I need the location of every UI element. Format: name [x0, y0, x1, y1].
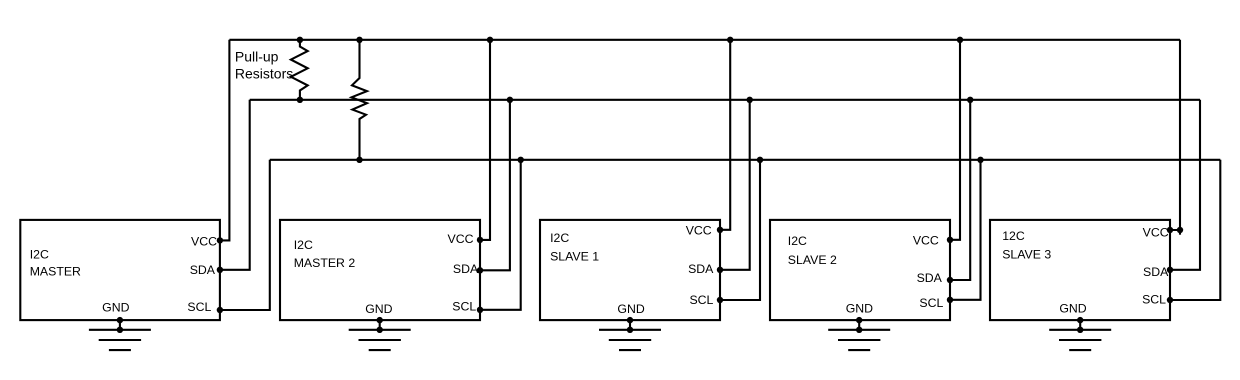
junction R2 bottom on SCL rail	[356, 157, 362, 163]
wire U4 VCC pin to VCC rail	[950, 40, 960, 240]
pin U3 VCC	[717, 227, 723, 233]
svg-text:SCL: SCL	[187, 300, 211, 314]
svg-text:SDA: SDA	[688, 262, 714, 276]
pin U5 SDA	[1167, 267, 1173, 273]
svg-text:SCL: SCL	[1142, 292, 1166, 306]
pin U4 SCL	[947, 297, 953, 303]
pin U4 SDA	[947, 277, 953, 283]
svg-text:GND: GND	[102, 301, 129, 315]
junction U3 SCL on SCL rail	[757, 157, 763, 163]
svg-text:SDA: SDA	[917, 271, 943, 285]
junction U5 ground bar	[1077, 327, 1083, 333]
resistor R1 pull-up	[291, 40, 308, 100]
svg-text:SLAVE 2: SLAVE 2	[788, 253, 837, 267]
svg-text:VCC: VCC	[913, 234, 939, 248]
svg-text:GND: GND	[1059, 302, 1086, 316]
svg-text:GND: GND	[365, 302, 392, 316]
pin U1 SCL	[217, 307, 223, 313]
svg-text:VCC: VCC	[1143, 226, 1169, 240]
pin U2 SDA	[477, 267, 483, 273]
pin U1 SDA	[217, 267, 223, 273]
junction U2 SCL on SCL rail	[518, 157, 524, 163]
svg-text:SDA: SDA	[453, 262, 479, 276]
wire U5 SCL pin to SCL rail right end	[1170, 160, 1220, 300]
svg-text:SDA: SDA	[1143, 265, 1169, 279]
junction U2 ground bar	[377, 327, 383, 333]
pin U5 VCC	[1167, 227, 1173, 233]
wire U1 SCL pin to SCL rail	[220, 160, 270, 310]
junction U4 SDA on SDA rail	[967, 97, 973, 103]
wire U2 SCL pin to SCL rail	[480, 160, 521, 310]
svg-text:VCC: VCC	[191, 235, 217, 249]
junction R2 top on VCC rail	[356, 37, 362, 43]
wire U4 SCL pin to SCL rail	[950, 160, 981, 300]
ground U5	[1049, 320, 1111, 350]
svg-text:I2C: I2C	[550, 231, 569, 245]
svg-text:12C: 12C	[1002, 229, 1025, 243]
svg-text:SDA: SDA	[190, 263, 216, 277]
wire U1 SDA pin to SDA rail	[220, 100, 250, 270]
junction U2 ground top	[377, 317, 383, 323]
svg-text:SLAVE 3: SLAVE 3	[1002, 247, 1051, 261]
svg-text:SLAVE 1: SLAVE 1	[550, 250, 599, 264]
ground U4	[828, 320, 890, 350]
svg-text:SCL: SCL	[452, 299, 476, 313]
wire SDA rail (net SDA)	[250, 99, 1200, 101]
wire U5 VCC pin to VCC rail right end	[1170, 40, 1180, 230]
svg-text:Resistors: Resistors	[235, 66, 293, 82]
pin U2 VCC	[477, 237, 483, 243]
junction U3 VCC on VCC rail	[727, 37, 733, 43]
wire U3 SCL pin to SCL rail	[720, 160, 760, 300]
junction U2 VCC on VCC rail	[487, 37, 493, 43]
junction U3 SDA on SDA rail	[747, 97, 753, 103]
ground U2	[349, 320, 411, 350]
ground U3	[599, 320, 661, 350]
pin U5 SCL	[1167, 297, 1173, 303]
pin U4 VCC	[947, 237, 953, 243]
junction U1 ground bar	[117, 327, 123, 333]
I2C slave 3 U5 box	[990, 220, 1170, 320]
junction U2 SDA on SDA rail	[507, 97, 513, 103]
wire stub below U5 VCC corner junction	[1179, 230, 1181, 235]
I2C master 2 U2 box	[280, 220, 480, 320]
ground U1	[89, 320, 151, 350]
pin U3 SDA	[717, 267, 723, 273]
wire U2 SDA pin to SDA rail	[480, 100, 510, 270]
svg-text:MASTER 2: MASTER 2	[294, 256, 356, 270]
svg-text:VCC: VCC	[448, 232, 474, 246]
wire U3 VCC pin to VCC rail	[720, 40, 730, 230]
svg-text:I2C: I2C	[294, 238, 313, 252]
svg-text:VCC: VCC	[686, 224, 712, 238]
junction U3 ground top	[627, 317, 633, 323]
wire U3 SDA pin to SDA rail	[720, 100, 750, 270]
wire U1 VCC pin to VCC rail	[220, 40, 230, 241]
svg-text:MASTER: MASTER	[30, 264, 81, 278]
svg-text:Pull-up: Pull-up	[235, 49, 279, 65]
svg-text:GND: GND	[846, 302, 873, 316]
junction U4 SCL on SCL rail	[977, 157, 983, 163]
pin U2 SCL	[477, 307, 483, 313]
wire U4 SDA pin to SDA rail	[950, 100, 970, 280]
wire SCL rail (net SCL)	[270, 159, 1221, 161]
svg-text:GND: GND	[617, 302, 644, 316]
I2C master U1 box	[20, 220, 220, 320]
wire U5 SDA pin to SDA rail right end	[1170, 100, 1200, 270]
resistor R2 pull-up	[352, 40, 368, 160]
junction U3 ground bar	[627, 327, 633, 333]
junction U1 ground top	[117, 317, 123, 323]
pin U1 VCC	[217, 237, 223, 243]
svg-text:I2C: I2C	[30, 247, 49, 261]
svg-text:SCL: SCL	[919, 296, 943, 310]
junction U4 ground bar	[856, 327, 862, 333]
junction U4 VCC on VCC rail	[957, 37, 963, 43]
junction U5 ground top	[1077, 317, 1083, 323]
svg-text:I2C: I2C	[788, 234, 807, 248]
wire VCC rail (net VCC)	[229, 39, 1180, 41]
I2C slave 1 U3 box	[540, 220, 720, 320]
svg-text:SCL: SCL	[689, 293, 713, 307]
pin U3 SCL	[717, 297, 723, 303]
junction R1 top on VCC rail	[297, 37, 303, 43]
junction R1 bottom on SDA rail	[297, 97, 303, 103]
junction U4 ground top	[856, 317, 862, 323]
junction U5 VCC corner	[1177, 227, 1183, 233]
wire U2 VCC pin to VCC rail	[480, 40, 490, 240]
I2C slave 2 U4 box	[770, 220, 950, 320]
